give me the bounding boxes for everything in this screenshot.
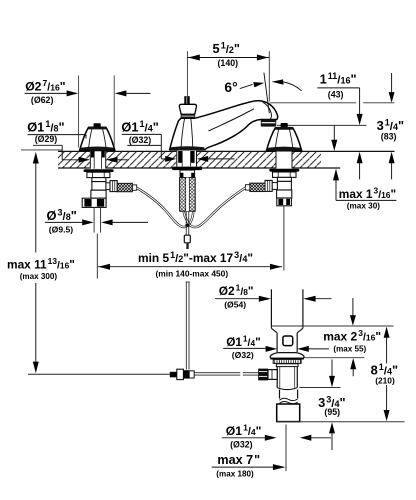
drain tailpiece [280,390,298,399]
drain taper [271,326,303,333]
lift rod end coupling [184,235,190,243]
lift rod tip [186,243,188,249]
left valve mounting nut [87,172,110,177]
dimension 8 1/4 inch (210) drain height [371,327,398,422]
spout shank through deck [177,151,197,167]
dimension dia 3/8 inch (9.5) supply tube [45,207,148,234]
left valve shank through deck [90,151,105,169]
drain neck [277,333,297,352]
drain body [277,367,297,388]
left valve flange nut below deck [84,169,114,172]
spout threaded shank [180,178,196,212]
svg-text:(max 55): (max 55) [333,345,366,354]
svg-text:(Ø54): (Ø54) [224,300,246,310]
tailpiece end cap [277,404,300,422]
spout tip inner contour [263,102,272,120]
rod coupling clevis [170,369,194,379]
drain locknut serrated ring [273,359,301,363]
horizontal rod to drain [194,373,259,375]
aerator at spout tip [261,119,276,126]
svg-text:(95): (95) [324,407,340,417]
svg-text:(Ø32): (Ø32) [129,135,152,145]
6 degree slant reference line [264,73,269,114]
lift rod knob [179,104,196,114]
lift rod knob stem [184,96,189,104]
deck cutout right valve [276,150,293,168]
svg-text:(max 180): (max 180) [216,470,254,479]
left valve outlet hex adapter [110,181,117,192]
left handle [80,123,115,150]
dimension dia 1 1/4 inch (32) drain neck [223,334,329,361]
deck cutout spout [176,150,197,168]
spout outlet reference line (y=125.4) [277,124,366,126]
svg-text:(Ø32): (Ø32) [232,350,254,360]
dimension min 5 1/2 max 17 3/4 inch valve to drain [98,250,282,279]
right valve flange nut below deck [269,169,299,172]
dimension 6 degree spout angle [224,73,301,114]
deck cutout left valve [90,150,106,168]
flexible supply hose right [184,188,246,227]
right hose ferrule [246,185,250,190]
right handle [266,123,301,151]
flexible supply hose left [137,188,194,227]
left valve supply tube [94,207,101,278]
spout flange below deck [172,167,202,171]
right valve side outlet stub [272,183,277,190]
svg-text:(max 30): (max 30) [347,201,380,210]
spout mounting collar [180,170,195,178]
right valve supply line [283,206,285,271]
drain ball rod port [258,369,277,381]
svg-text:(43): (43) [328,89,344,99]
svg-text:(Ø62): (Ø62) [31,95,54,105]
svg-text:max 7 ": max 7 " [217,453,260,467]
countertop deck cross-section [58,151,395,168]
dimension max 11 13/16 inch (max 300) height below deck [7,150,75,373]
drain top tube [271,289,303,326]
right valve braided hose end [250,183,265,192]
dimension max 1 3/16 inch (max 30) deck thickness [333,169,396,211]
knob collar [181,114,196,118]
dimension 3 1/4 inch (83) spout height [377,73,404,179]
svg-text:(Ø9.5): (Ø9.5) [49,224,73,234]
svg-text:(Ø32): (Ø32) [230,440,253,450]
spout top reference line (y=102.8) [270,102,356,104]
left valve side outlet stub [106,183,110,190]
bottom reference line (y=421.8) [277,421,405,423]
dimension 1 11/16 inch (43) outlet height [317,71,362,179]
pop-up lift rod below shank [186,211,189,235]
drain centerline extension [285,425,287,472]
left valve braided hose end [117,183,132,192]
tailpiece break squiggle [280,398,298,400]
drain step line and right reference line (y=326) [271,325,393,327]
right valve bottom hex [277,198,292,206]
dimension dia 1 1/8 inch (29) left shank [27,119,127,163]
horizontal actuating rod left [28,373,170,375]
svg-text:(140): (140) [218,58,239,68]
right valve mounting nut [273,172,297,177]
pop-up rod lower section [186,282,190,370]
dimension 5 1/2 inch (140) spout reach [187,40,269,104]
spout base inner curves [181,118,185,149]
svg-text:(max 300): (max 300) [20,272,58,281]
spout base bottom band [170,146,205,150]
spout body [170,101,278,150]
svg-text:(83): (83) [381,132,397,142]
svg-text:Ø 3/8": Ø 3/8" [47,207,77,223]
dimension dia 1 1/4 inch (32) tailpiece [222,423,331,450]
drain body step [276,364,298,367]
svg-text:(Ø29): (Ø29) [35,134,58,144]
svg-text:(210): (210) [375,376,395,386]
svg-text:6°: 6° [224,80,237,95]
drain body bottom curve [277,388,297,390]
dimension dia 1 1/4 inch (32) spout shank [121,119,234,162]
left valve body [91,178,106,199]
dimension dia 2 1/8 inch (54) drain top [215,283,332,310]
right valve outlet hex adapter [265,180,272,191]
dimension max 7 inch (max 180) drain offset [212,453,286,478]
right valve body [277,177,292,198]
left valve bottom hex [82,198,106,207]
spout mid contour line [209,109,255,131]
dimension max 2 3/16 inch (max 55) drain deck depth [304,298,381,376]
left hose ferrule [132,185,136,190]
svg-text:(min 140-max 450): (min 140-max 450) [156,269,229,279]
drain flange [270,353,304,359]
dimension dia 2 7/16 inch (62) handle diameter [25,75,151,147]
overflow square hole [283,336,293,346]
dimension 3 3/4 inch (95) tailpiece length [299,359,345,450]
right valve shank through deck [276,151,292,169]
